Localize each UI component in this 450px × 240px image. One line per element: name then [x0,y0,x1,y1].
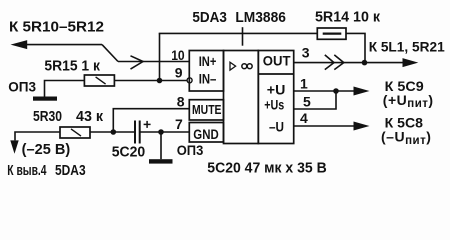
capacitor 5C20 [135,121,151,144]
wire input diagonal [102,45,118,62]
resistor 5R14 [317,28,346,39]
svg-text:5DA3: 5DA3 [55,163,86,179]
wire OUT pin 3 [294,62,405,64]
svg-text:43 к: 43 к [76,109,104,125]
svg-text:1: 1 [300,76,308,92]
resistor 5R30 [60,127,90,138]
leader line 5DA3 label [242,27,244,46]
arrow to К 5R10–5R12 [11,40,28,49]
arrow to К 5С8 [354,122,370,131]
svg-text:5С20: 5С20 [112,145,146,161]
wire -25V rail to 5R30 [15,132,60,140]
svg-text:К 5R10–5R12: К 5R10–5R12 [9,20,104,36]
wire +Us pin 5 [294,91,337,109]
svg-text:OUT: OUT [263,52,291,68]
node OUT junction [362,60,368,66]
svg-text:(–25 В): (–25 В) [22,142,71,158]
op-amp amplifier symbol [230,62,252,70]
ground ОП3 left [33,97,57,101]
svg-text:IN+: IN+ [199,54,217,69]
resistor 5R15 [84,75,114,86]
svg-text:4: 4 [300,110,308,126]
svg-text:ОП3: ОП3 [8,79,36,95]
wire -U pin 4 [294,125,356,127]
svg-text:5R30: 5R30 [33,109,62,125]
svg-text:+U: +U [267,81,286,97]
svg-text:–U: –U [269,118,284,134]
wire 5R14 right to OUT node [346,33,365,62]
ground ОП3 right [149,159,173,163]
arrow down -25 V [10,140,18,153]
svg-text:MUTE: MUTE [192,102,222,117]
wire input top horizontal to К 5R10–5R12 [24,44,102,46]
inversion circle pin 9 [187,78,192,83]
signal-flow chevron on input wire [131,56,144,69]
wire feedback horizontal top [159,32,318,34]
svg-text:ОП3: ОП3 [177,142,204,158]
wire capacitor to GND pin 7 [140,131,189,133]
node GND junction [158,129,164,135]
svg-text:5R14 10 к: 5R14 10 к [315,10,381,26]
node MUTE junction [111,129,117,135]
svg-text:5: 5 [303,93,311,109]
signal-flow double chevron on output wire [325,55,344,70]
svg-text:7: 7 [175,116,183,132]
svg-text:К выв.4: К выв.4 [7,163,46,179]
node +U junction [333,88,339,94]
arrow to К 5С9 [354,87,370,96]
svg-text:LM3886: LM3886 [235,10,286,26]
svg-text:5DA3: 5DA3 [192,10,227,26]
svg-text:10: 10 [171,47,185,63]
svg-text:IN–: IN– [199,72,217,87]
wire pin 10 horizontal [118,61,190,63]
wire 5R15 to pin 9 [114,80,187,82]
svg-text:+Us: +Us [264,97,284,113]
svg-text:5R15 1 к: 5R15 1 к [44,58,100,74]
arrow to К 5L1, 5R21 [403,58,419,67]
wire node to right ОП3 ground [160,132,162,159]
svg-text:8: 8 [177,94,185,110]
op-amp U1 5DA3 LM3886 body [189,51,293,144]
svg-text:3: 3 [302,45,310,61]
wire MUTE pin 8 [113,109,189,132]
svg-text:К 5L1, 5R21: К 5L1, 5R21 [369,39,445,55]
wire ОП3 to 5R15 [45,81,85,97]
wire feedback vertical at node A [159,33,161,80]
wire +U pin 1 [294,90,356,92]
svg-text:9: 9 [175,65,183,81]
svg-text:5С20 47 мк x 35 В: 5С20 47 мк x 35 В [207,161,326,177]
wire 5R30 to capacitor [90,131,134,133]
node pin9 feedback junction [157,78,163,84]
svg-text:GND: GND [193,127,219,142]
